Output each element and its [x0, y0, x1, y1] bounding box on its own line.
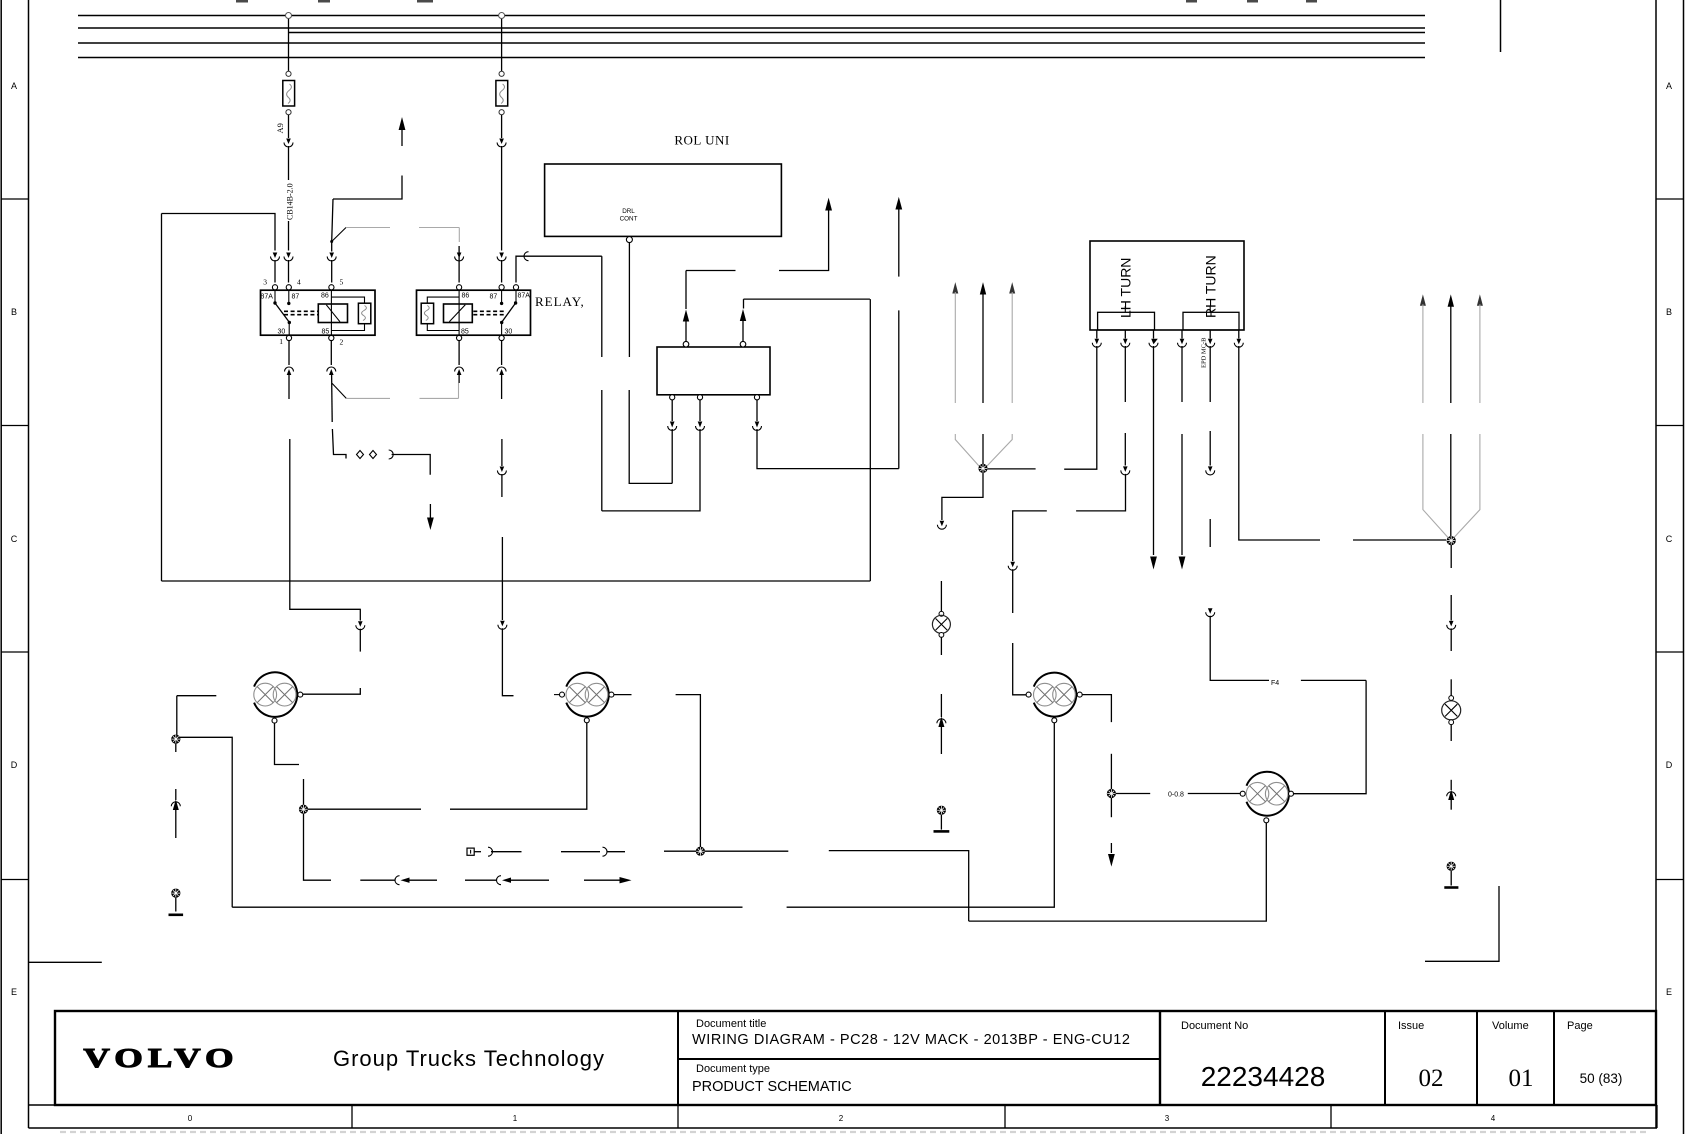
wire splice down to connector row	[304, 813, 332, 880]
title block divider doc title/doc type	[678, 1058, 1160, 1060]
scale row divider 0/1	[351, 1105, 353, 1128]
svg-text:DRL: DRL	[622, 208, 635, 215]
wire splice row to lamp L2 bottom	[308, 723, 587, 809]
title block divider issue/volume	[1476, 1011, 1478, 1105]
wire F4 run right	[1301, 679, 1366, 681]
svg-text:3: 3	[263, 278, 267, 287]
svg-text:87: 87	[490, 294, 498, 301]
svg-text:CB14B-2.0: CB14B-2.0	[286, 183, 295, 220]
wire arrow into bus (over flasher)	[779, 198, 832, 271]
wire CB14B down to relay K1 pin 4	[288, 221, 290, 251]
cluster LH sub-connector	[1098, 312, 1155, 330]
svg-text:1: 1	[279, 337, 283, 346]
svg-text:87A: 87A	[518, 293, 531, 300]
wire left chain branch right	[180, 737, 232, 907]
scale row end right	[1656, 1105, 1658, 1128]
BUS	[78, 13, 1425, 582]
wire gray option bridge lower	[332, 383, 459, 398]
turn signal cluster box	[1090, 241, 1244, 330]
node fuse F2 top terminal	[499, 71, 504, 76]
node fuse F-A9 bottom terminal	[286, 110, 291, 115]
connector on K2 pin30 wire low	[498, 621, 514, 696]
connector on cluster pin5 wire low	[1206, 608, 1269, 680]
svg-text:2: 2	[340, 338, 344, 347]
TITLEBLOCK	[29, 1011, 1658, 1128]
scale row divider 1/2	[677, 1105, 679, 1128]
connector on K1 pin2 wire	[327, 367, 346, 459]
LAMPS	[254, 672, 1294, 822]
connector on relay K2 pin wire	[497, 253, 506, 283]
connector pair row mid	[465, 876, 549, 885]
wire bottom return to lamp L4	[969, 823, 1267, 921]
relay K1 pin 3 terminal	[272, 285, 277, 290]
wire bus line 1	[78, 15, 1425, 17]
wire lamp L1 right feed riser	[303, 609, 365, 694]
wire below mid lamp	[940, 637, 942, 655]
wire ground chain mid upper	[940, 581, 942, 611]
wire pin2 run to lamp3	[1008, 511, 1047, 695]
wire arrow trio right: black center	[1448, 294, 1454, 536]
svg-text:Document type: Document type	[696, 1063, 770, 1075]
relay K1 body	[261, 290, 376, 335]
title block divider title/docno	[1159, 1011, 1161, 1105]
relay K1 coil through-wire	[330, 290, 332, 335]
flasher bottom terminal B	[697, 395, 702, 400]
node splice junction right trio	[1447, 536, 1456, 545]
wire bottom right L	[1425, 886, 1499, 961]
wire splice runs right	[705, 851, 969, 922]
svg-text:E: E	[1666, 987, 1672, 997]
flasher bottom terminal A	[670, 395, 675, 400]
svg-text:E: E	[11, 987, 17, 997]
connector row diamonds	[357, 450, 431, 475]
wire cluster pin5 (RH feed)	[1206, 330, 1215, 466]
relay K2 resistor links	[427, 297, 459, 330]
node bus tap right	[499, 13, 505, 19]
svg-text:85: 85	[322, 329, 330, 336]
relay K1 actuator dashes	[284, 311, 318, 314]
stray vertical line top right	[1500, 0, 1502, 52]
frame inner right border	[1655, 0, 1657, 1128]
top cut-off text fragments	[236, 0, 1317, 3]
node splice junction right chain	[1447, 862, 1456, 871]
ground mid chain	[934, 815, 950, 832]
svg-text:D: D	[1666, 760, 1673, 770]
wire left chain below junction	[175, 743, 177, 800]
pin stub RH TURN	[1209, 306, 1211, 312]
wire arrow-right terminal	[584, 877, 632, 883]
relay K2 pin 87A terminal	[513, 285, 518, 290]
fuse A9	[283, 81, 295, 107]
relay K2 coil	[444, 304, 473, 323]
frame zone tick left B/C	[1, 425, 28, 427]
svg-text:Document No: Document No	[1181, 1020, 1248, 1032]
wire lamp L4 right riser to F4 line	[1294, 680, 1367, 793]
frame zone tick left C/D	[1, 651, 28, 653]
svg-text:3: 3	[1165, 1114, 1170, 1123]
lamp L3 (rear left turn)	[1026, 673, 1082, 723]
frame zone tick left A/B	[1, 198, 28, 200]
relay K1 resistor	[358, 303, 370, 324]
wire right chain segment	[1450, 679, 1452, 695]
ground right chain	[1444, 870, 1458, 887]
connector on right chain	[1447, 621, 1456, 651]
wire splice to lamp L4 with size label	[1116, 793, 1241, 795]
wire left big loop vertical	[161, 214, 163, 582]
svg-text:Issue: Issue	[1398, 1020, 1424, 1032]
svg-text:Page: Page	[1567, 1020, 1593, 1032]
frame inner left border	[28, 0, 30, 1128]
svg-text:0-0.8: 0-0.8	[1168, 792, 1184, 799]
relay K2 pin 86 terminal	[457, 285, 462, 290]
wire arrow trio left: gray right	[987, 282, 1015, 466]
wire bus line 5	[78, 57, 1425, 59]
CHAINS	[169, 282, 1500, 961]
scale row divider 3/4	[1330, 1105, 1332, 1128]
wire fuse A9 down	[288, 115, 290, 138]
connector on wire A9	[284, 139, 293, 181]
wire cluster pin2	[1121, 330, 1130, 466]
svg-text:C: C	[11, 534, 18, 544]
node bus tap left	[286, 13, 292, 19]
svg-text:87A: 87A	[261, 294, 274, 301]
inline connector row upper: square plug	[467, 847, 522, 856]
relay K2 body	[417, 290, 531, 335]
frame outer left border	[0, 0, 2, 1134]
svg-text:B: B	[1666, 307, 1672, 317]
CENTER	[545, 133, 903, 511]
wire left ground chain top	[177, 695, 217, 697]
svg-text:A: A	[1666, 81, 1672, 91]
relay K1 pin 1 terminal	[286, 335, 291, 340]
frame zone tick right B/C	[1656, 425, 1684, 427]
connector arrow-up on left chain	[171, 800, 180, 839]
svg-text:86: 86	[321, 293, 329, 300]
frame zone tick right A/B	[1656, 198, 1684, 200]
scale row top line	[29, 1104, 1658, 1106]
lamp small right (indicator)	[1442, 696, 1461, 725]
wire flasher pin C run	[753, 400, 899, 469]
lamp small mid (indicator)	[932, 611, 950, 637]
node splice junction left trio	[978, 464, 987, 473]
svg-text:A: A	[11, 81, 17, 91]
svg-text:Group Trucks Technology: Group Trucks Technology	[333, 1046, 605, 1071]
title block divider volume/page	[1553, 1011, 1555, 1105]
relay K2 switch	[500, 290, 517, 335]
ground left chain	[169, 897, 184, 915]
svg-text:30: 30	[505, 329, 513, 336]
wire splice down arrow terminal	[1108, 798, 1115, 867]
svg-text:EPD MC-B: EPD MC-B	[1201, 337, 1208, 368]
svg-text:B: B	[11, 307, 17, 317]
wire splice riser	[303, 779, 305, 805]
node fuse F2 bottom terminal	[499, 110, 504, 115]
svg-text:30: 30	[278, 329, 286, 336]
wire fuse F2 down	[501, 115, 503, 138]
connector on 87A riser horizontal	[524, 252, 529, 261]
flasher top terminal 1	[683, 341, 689, 347]
connector on relay K1 pin5 wire	[327, 253, 336, 283]
wire arrow trio right: gray right	[1454, 294, 1483, 537]
svg-text:0: 0	[188, 1114, 193, 1123]
svg-text:Volume: Volume	[1492, 1020, 1529, 1032]
svg-text:01: 01	[1509, 1065, 1534, 1092]
svg-text:F4: F4	[1271, 680, 1279, 687]
svg-text:C: C	[1666, 534, 1673, 544]
relay K1 switch	[273, 290, 291, 335]
relay K1 resistor links	[331, 297, 364, 330]
wire junction to cluster pin1 run	[988, 468, 1036, 470]
wire arrow feed top (node A)	[333, 117, 405, 199]
connector pair row left	[360, 876, 437, 885]
wire flasher pin A riser	[671, 429, 673, 483]
relay K1 pin 2 terminal	[329, 335, 334, 340]
TURNBOX	[1008, 241, 1446, 695]
wire junction branch down-left	[942, 473, 983, 520]
svg-text:1: 1	[513, 1114, 518, 1123]
wire right chain below junction	[1450, 545, 1452, 621]
svg-text:22234428: 22234428	[1201, 1061, 1326, 1092]
node fuse F-A9 top terminal	[286, 71, 291, 76]
wire below right lamp	[1450, 725, 1452, 741]
RELAYS	[261, 278, 585, 696]
title block divider docno/issue	[1384, 1011, 1386, 1105]
frame zone tick right D/E	[1656, 879, 1684, 881]
svg-text:50 (83): 50 (83)	[1580, 1071, 1623, 1086]
wire arrow trio left: gray left	[952, 282, 979, 466]
connector on fuse F2 wire	[497, 139, 506, 251]
wire bus line 3	[289, 32, 1426, 34]
connector on flasher pin A wire	[668, 398, 677, 431]
wire relay K1 pin3 feeder (left big loop top)	[274, 260, 276, 283]
node junction at 241.5	[330, 240, 333, 243]
wire cluster pin4 arrow end	[1178, 330, 1187, 570]
wire lamp L1 bottom to splice	[275, 723, 300, 764]
wire gray option bridge upper	[332, 228, 460, 243]
connector on K1 pin1 wire	[285, 367, 361, 609]
frame zone tick left D/E	[1, 879, 28, 881]
wire left big loop bottom	[162, 580, 871, 582]
bottom cut-off text noise row	[60, 1131, 1650, 1133]
wire K1 pin2 down	[330, 341, 332, 365]
lamp L4 (rear right turn)	[1240, 772, 1293, 823]
wire relay K1 pin5 riser	[332, 199, 333, 252]
wire stub at left frame zone E	[29, 961, 102, 963]
svg-text:PRODUCT SCHEMATIC: PRODUCT SCHEMATIC	[692, 1079, 852, 1095]
connector on cluster pin6 wire	[1234, 339, 1446, 540]
title block divider logo/title	[677, 1011, 679, 1105]
svg-text:4: 4	[1491, 1114, 1496, 1123]
relay K2 pin 85 bottom terminal	[457, 335, 462, 340]
wire relay K2 pin87A riser	[516, 256, 602, 282]
pin stub LH TURN	[1124, 306, 1126, 312]
scale row divider 2/3	[1004, 1105, 1006, 1128]
wire cluster pin1	[1064, 330, 1101, 469]
ROL UNI control unit box	[545, 164, 782, 236]
lamp L1 (front left turn/position)	[254, 672, 303, 723]
svg-text:VOLVO: VOLVO	[83, 1043, 238, 1073]
svg-text:CONT: CONT	[620, 216, 638, 223]
svg-text:87: 87	[292, 294, 300, 301]
svg-text:Document title: Document title	[696, 1018, 766, 1030]
svg-text:02: 02	[1419, 1065, 1444, 1092]
relay K1 coil	[318, 304, 347, 323]
wire K1 pin1 down	[288, 341, 290, 365]
wire cluster pin3 arrow end	[1149, 330, 1158, 570]
wire lamp L2 right column down to splice	[614, 695, 701, 847]
inline connector row upper second	[561, 847, 625, 856]
svg-text:ROL UNI: ROL UNI	[674, 133, 729, 148]
svg-text:D: D	[11, 760, 18, 770]
svg-text:A9: A9	[275, 123, 285, 133]
connector on K2 pin30 wire	[497, 367, 506, 466]
BOTTOMWIRES	[232, 609, 1366, 921]
flasher top terminal 2	[740, 341, 746, 347]
title block outline	[55, 1011, 1656, 1105]
connector arrow-up on right chain	[1447, 780, 1456, 810]
connector on cluster pin5 wire	[1206, 466, 1215, 547]
relay K2 coil through-wire	[458, 290, 460, 335]
svg-text:5: 5	[340, 278, 344, 287]
wire long bottom bus	[232, 723, 1054, 907]
node splice junction left chain lower	[171, 889, 180, 898]
node splice junction lamp L3/L4	[1107, 789, 1116, 798]
wire cluster pin6 run right	[1238, 330, 1240, 339]
node splice junction lamp returns	[299, 805, 308, 814]
relay K1 pin 4 terminal	[286, 285, 291, 290]
svg-text:WIRING DIAGRAM - PC28 - 12V MA: WIRING DIAGRAM - PC28 - 12V MACK - 2013B…	[692, 1032, 1130, 1048]
wire right riser with arrow	[895, 197, 902, 469]
label CB14B-2.0	[284, 181, 295, 221]
wire arrow trio left: black center	[980, 282, 986, 464]
connector on K2 pin85 wire	[455, 367, 464, 383]
relay K2 actuator dashes	[473, 311, 505, 314]
scale row bottom line	[29, 1127, 1658, 1129]
cluster RH sub-connector	[1183, 312, 1239, 330]
label DRL CONT	[620, 208, 638, 223]
node DRL CONT pin	[626, 237, 632, 243]
wire DRL CONT down	[628, 243, 630, 357]
wire bus line 4	[78, 42, 1425, 44]
connector on K2 pin30 wire mid	[497, 467, 506, 621]
frame outer right border	[1683, 0, 1685, 1134]
connector on cluster pin2 wire	[1076, 466, 1130, 511]
wire flasher pin B loop	[602, 256, 705, 511]
wire to splice at 700	[664, 850, 696, 852]
lamp L2 (front right turn/position)	[554, 673, 614, 723]
wire bus line 2	[78, 27, 1425, 29]
svg-text:85: 85	[461, 329, 469, 336]
node splice junction center-bottom	[696, 847, 705, 856]
relay K1 pin 5 terminal	[329, 285, 334, 290]
node splice junction left chain	[171, 735, 180, 744]
connector on relay K1 pin3 wire	[162, 214, 280, 262]
wire flasher top2 plug	[740, 299, 870, 341]
connector on relay K1 pin4 wire	[284, 253, 293, 283]
wire flasher top1 plug	[683, 271, 736, 342]
wire K2 pin30 down	[501, 341, 503, 365]
svg-text:4: 4	[297, 278, 301, 287]
relay K2 pin 87 terminal	[499, 285, 504, 290]
wire bus drop right	[501, 18, 503, 71]
svg-text:86: 86	[462, 293, 470, 300]
flasher unit box	[657, 347, 770, 395]
svg-text:2: 2	[839, 1114, 844, 1123]
relay K2 pin 30 bottom terminal	[499, 335, 504, 340]
connector arrow-up on mid chain	[937, 694, 946, 754]
wire big loop right riser	[869, 299, 871, 581]
flasher bottom terminal C	[754, 395, 759, 400]
wire lamp L3 right branch	[1082, 695, 1111, 790]
wire bus drop left	[288, 18, 290, 71]
frame zone tick right C/D	[1656, 651, 1684, 653]
relay K2 resistor	[421, 303, 433, 324]
wire K2 pin85 down	[458, 341, 460, 365]
wire arrow terminal below connector row	[427, 504, 434, 530]
fuse F2	[496, 81, 508, 107]
connector on ground chain mid top	[937, 521, 946, 530]
connector on relay K2 pin86 wire	[455, 246, 464, 283]
node splice junction mid chain	[937, 806, 946, 815]
svg-text:RELAY,: RELAY,	[535, 294, 585, 309]
wire arrow trio right: gray left	[1420, 294, 1448, 537]
